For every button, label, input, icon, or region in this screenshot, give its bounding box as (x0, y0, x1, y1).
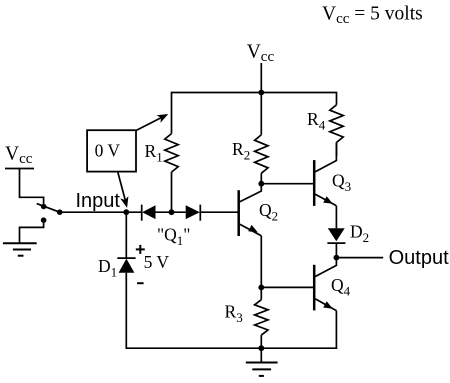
wire junction to Q4 base (261, 286, 313, 288)
node Vcc rail junction (258, 90, 264, 96)
switch blade (37, 204, 60, 213)
label - (D1 polarity) (137, 282, 144, 284)
transistor Q3 emitter (315, 194, 336, 206)
label D1 (98, 256, 117, 280)
node R3 top junction (258, 285, 264, 291)
resistor R1 (165, 134, 178, 173)
label D2 (350, 221, 369, 245)
wire R2 top lead (260, 93, 262, 135)
label Vcc = 5 volts (322, 4, 423, 27)
transistor Q3 base bar (313, 160, 316, 206)
transistor Q2 emitter (240, 224, 261, 236)
wire Q2 emitter to R3 junction (260, 236, 262, 288)
annotation arrow to R1 (136, 117, 163, 131)
wire top supply rail (172, 93, 337, 134)
wire output (336, 257, 383, 259)
wire Vcc stub (260, 63, 262, 93)
label R4 (307, 109, 326, 133)
wire R2 bottom lead (260, 173, 262, 183)
svg-text:0 V: 0 V (95, 141, 121, 161)
label Q4 (331, 275, 351, 299)
wire R2 junction to Q3 base (261, 183, 313, 185)
label Q3 (332, 171, 351, 195)
transistor Q3 collector (315, 142, 336, 171)
transistor Q4 emitter (315, 299, 336, 311)
label Vcc (switch supply) (5, 144, 33, 167)
label Q2 (259, 200, 278, 224)
label 5 V (144, 252, 170, 272)
label "Q1" (157, 224, 190, 248)
label R3 (225, 302, 243, 326)
wire lower contact to ground (20, 220, 44, 243)
switch lower contact (41, 217, 47, 223)
switch upper contact (41, 204, 47, 210)
node bottom rail junction (258, 345, 264, 351)
diode Q1 base-emitter (left) (141, 205, 143, 221)
wire input node to D1 (125, 212, 127, 258)
label R2 (232, 139, 250, 163)
wire D1 anode to bottom rail (126, 273, 336, 349)
transistor Q2 collector (240, 184, 261, 202)
power bar Vcc left (5, 168, 34, 170)
wire D2 to output node (335, 243, 337, 258)
ground (switch) (3, 243, 37, 256)
resistor R4 (330, 105, 343, 143)
diode D1 (117, 257, 135, 259)
wire Vcc bar to switch top contact (20, 169, 44, 207)
label Vcc (top supply) (247, 42, 275, 65)
annotation box 0 V (87, 130, 136, 171)
diode Q1 base-collector (right) (186, 205, 200, 219)
resistor R2 (255, 135, 268, 174)
resistor R3 (260, 287, 262, 299)
svg-text:Output: Output (389, 247, 449, 269)
node input (123, 209, 129, 215)
diode D2 (328, 228, 345, 241)
transistor Q4 collector (315, 258, 336, 277)
transistor Q2 base bar (237, 190, 240, 236)
node output (334, 255, 340, 261)
switch pole (57, 209, 63, 215)
wire R4 bottom lead (336, 142, 338, 156)
wire input (60, 211, 142, 213)
wire Q3 emitter to D2 (335, 206, 337, 228)
node Q1 base junction (169, 209, 175, 215)
label + (D1 polarity) (136, 245, 145, 254)
svg-text:Input: Input (76, 190, 121, 212)
annotation arrow to input node (118, 173, 126, 202)
svg-text:5 V: 5 V (144, 252, 170, 272)
wire R1 bottom lead (171, 172, 173, 212)
label Output (389, 247, 449, 269)
transistor Q4 base bar (313, 265, 316, 311)
label Input (76, 190, 121, 212)
node R2 bottom junction (258, 181, 264, 187)
ground (bottom) (260, 348, 262, 362)
label R1 (145, 141, 163, 165)
